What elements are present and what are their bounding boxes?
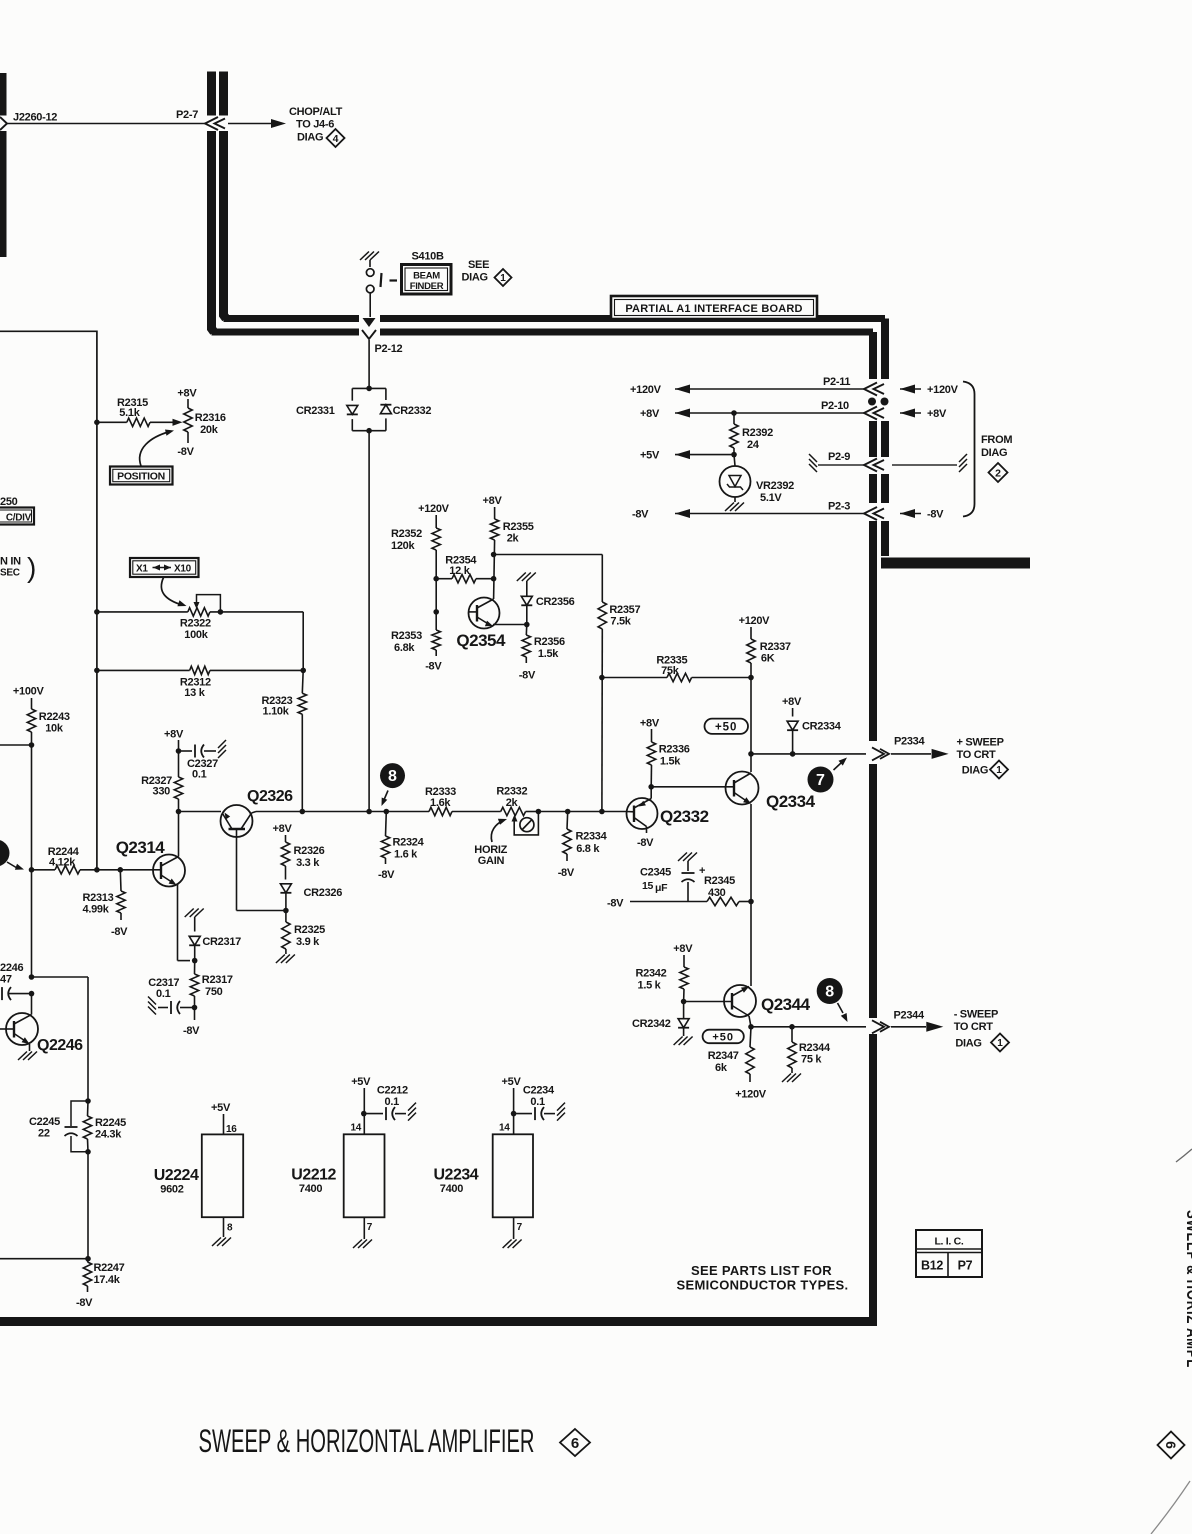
node collector rail / feed wire [29,974,35,980]
svg-text:CR2317: CR2317 [202,936,241,948]
node R2317 / C2317 [192,1005,198,1011]
wire R2243 to Q2246 collector rail [31,732,33,977]
wire R2322 to corner [210,611,303,613]
node R2247 top [85,1256,91,1262]
svg-text:C2345: C2345 [640,867,671,879]
svg-text:R2313: R2313 [83,892,114,904]
svg-text:R2342: R2342 [636,968,667,980]
svg-text:U2224: U2224 [154,1167,199,1184]
svg-text:TO CRT: TO CRT [957,749,997,761]
node R2355 bottom / R2357 feed [494,540,495,599]
resistor R2327 [178,751,180,777]
diamond 6 title [560,1429,590,1456]
svg-text:8: 8 [227,1223,233,1234]
node sweep block output [94,867,100,873]
svg-text:10k: 10k [45,723,64,735]
svg-text:-8V: -8V [425,661,442,673]
svg-text:SWEEP & HORIZONTAL AMPLIFIER: SWEEP & HORIZONTAL AMPLIFIER [199,1423,535,1459]
wire Q2246 collector up [31,994,33,1015]
wire R2323 down to Q2326 collector node [301,714,303,811]
wire bottom rail from left edge [0,1258,88,1260]
ground below CR2342 [683,1028,685,1036]
svg-text:R2355: R2355 [503,521,534,533]
wire R2352 to nodes [435,550,437,630]
resistor R2336 [647,742,655,765]
svg-text:+100V: +100V [13,686,45,698]
svg-text:C2212: C2212 [377,1085,408,1097]
node R2315 tap on sweep block [94,420,100,426]
node top of CR2331/CR2332 [366,386,372,392]
svg-text:X10: X10 [174,564,192,575]
svg-text:μF: μF [655,882,668,894]
capacitor C2212 [364,1113,383,1115]
capacitor C2234 [514,1113,532,1115]
switch arm [381,273,382,287]
wire +5V row [675,450,690,459]
svg-text:+5V: +5V [211,1102,231,1114]
transistor Q2332 [627,798,658,829]
svg-text:12 k: 12 k [449,565,470,577]
svg-text:R2326: R2326 [294,845,325,857]
resistor R2247 [87,1259,90,1262]
svg-text:1: 1 [500,273,506,284]
svg-text:330: 330 [153,786,171,798]
resistor R2334 [566,812,569,830]
svg-text:75k: 75k [661,665,680,677]
diode CR2356 [526,581,528,596]
svg-text:+120V: +120V [630,384,662,396]
svg-text:BEAM: BEAM [413,271,440,282]
wire +120V row P2-11 [675,385,690,394]
node R2344 tap [789,1024,795,1030]
box POSITION [110,467,173,485]
node Q2332 collector / Q2334 base [648,784,654,790]
svg-text:4.99k: 4.99k [83,904,110,916]
capacitor C2245 branch [71,1101,88,1126]
resistor R2326 [281,842,289,866]
arrow +120V from diag right side [900,385,915,394]
arrow -sweep off board [891,1026,926,1028]
node R2354 left [433,576,439,582]
resistor R2312 [190,666,210,674]
svg-text:6: 6 [1163,1441,1179,1449]
node CR2331 rail joins [366,809,372,815]
svg-text:Q2344: Q2344 [761,995,811,1014]
box BEAM FINDER [402,265,452,295]
wire -sweep output to connector [751,1026,866,1028]
node C2245/R2245 bottom [85,1149,91,1155]
resistor R2392 [733,413,735,424]
wire Q2354 emitter to CR2356 node [493,624,527,626]
arrow ball 8 to output wire [838,1003,844,1013]
node C2234 tap [511,1111,517,1117]
svg-text:1: 1 [997,1038,1003,1049]
box X1-X10 [130,558,199,577]
svg-text:+5V: +5V [351,1076,371,1088]
svg-text:): ) [27,552,36,583]
board bar below P2-7 outer [224,131,227,319]
svg-text:+8V: +8V [673,943,693,955]
resistor R2345 [707,897,739,905]
arrow HORIZ GAIN to adjust [491,821,503,843]
svg-text:1: 1 [996,765,1002,776]
svg-text:+8V: +8V [927,408,947,420]
page curl mark [1176,1149,1192,1162]
svg-text:-8V: -8V [378,869,395,881]
svg-text:-8V: -8V [632,509,649,521]
diamond 1 beam finder [495,269,512,286]
svg-text:R2245: R2245 [95,1117,126,1129]
connector pin dots between P2-11 and P2-10 [868,398,876,406]
svg-text:CR2331: CR2331 [296,405,335,417]
svg-text:DIAG: DIAG [962,765,988,777]
wire switch to P2-12 [369,293,371,317]
diamond 4 [327,129,345,147]
resistor R2356 [525,625,528,636]
svg-text:R2322: R2322 [180,618,211,630]
board bar top horizontal right of P2-12 [380,315,885,322]
wire R2315 to wiper arrow of R2316 [150,421,174,423]
svg-text:6: 6 [571,1435,579,1452]
node R2323 on rail [300,809,306,815]
connector P2-12 chevrons [363,318,376,327]
svg-text:VR2392: VR2392 [756,480,794,492]
svg-text:14: 14 [499,1123,510,1134]
node R2312 wire on sweep block [94,668,100,674]
svg-text:R2325: R2325 [294,924,325,936]
svg-text:X1: X1 [136,564,148,575]
node Q2354 base [433,609,439,615]
wire R2332 to junction [526,811,539,813]
svg-text:DIAG: DIAG [297,132,323,144]
svg-text:SEMICONDUCTOR TYPES.: SEMICONDUCTOR TYPES. [677,1278,849,1293]
svg-text:R2336: R2336 [659,744,690,756]
resistor R2347 [750,1027,751,1047]
arrow ball 8 to rail [384,791,389,802]
connector chevrons P2-10 [864,407,877,420]
diamond 2 [989,463,1008,482]
svg-text:+5V: +5V [502,1076,522,1088]
wire R2337 node down to Q2334 collector [750,678,752,773]
numbered ball 7 [808,767,834,793]
svg-text:CR2326: CR2326 [304,887,343,899]
node R2334 tap [565,809,571,815]
node VR2392 top [731,452,737,458]
resistor R2245 [87,1101,90,1116]
svg-text:+120V: +120V [739,615,771,627]
capacitor C2345 polarised [687,861,689,871]
node emitter junction R2345 [748,899,754,905]
board bar long vertical left/inner [869,559,877,741]
svg-text:TO CRT: TO CRT [954,1021,994,1033]
svg-text:5.1V: 5.1V [760,492,782,504]
svg-text:P2-12: P2-12 [375,343,403,355]
svg-text:P7: P7 [958,1259,973,1273]
arrow ball 7 to output wire [834,763,842,770]
svg-text:47: 47 [0,974,12,986]
wire R2244 to Q2314 base [80,869,154,871]
resistor R2353 [432,630,440,650]
svg-text:430: 430 [708,887,726,899]
ground above CR2317 [185,909,194,918]
ground below Q2246 emitter [29,1044,31,1051]
wire R2335 row [602,677,667,679]
svg-text:-8V: -8V [519,670,536,682]
svg-text:R2316: R2316 [195,412,226,424]
board bar P2-7 left column [207,72,216,116]
svg-text:P2-3: P2-3 [828,501,850,513]
ground U2212 [353,1240,362,1249]
numbered ball 8 (node 8) [380,763,405,788]
svg-text:4: 4 [333,133,339,145]
node R2392 top [731,410,737,416]
svg-text:750: 750 [205,986,223,998]
svg-text:R2356: R2356 [534,636,565,648]
ground above CR2356 [517,573,526,582]
table L.I.C. B12 P7 [916,1230,982,1277]
svg-text:P2-9: P2-9 [828,451,850,463]
resistor R2324 [385,812,388,837]
svg-text:15: 15 [642,880,654,892]
svg-text:R2317: R2317 [202,974,233,986]
ground above beam finder switch [369,260,371,267]
svg-text:0.1: 0.1 [530,1096,545,1108]
resistor R2243 [27,709,35,732]
board bar segments between connector rows [869,421,877,457]
svg-text:DIAG: DIAG [462,272,488,284]
resistor R2352 [432,528,440,550]
svg-text:R2345: R2345 [704,875,735,887]
connector chevrons P2-9 [864,459,877,472]
svg-text:R2392: R2392 [742,427,773,439]
svg-text:24: 24 [747,439,760,451]
svg-text:R2337: R2337 [760,641,791,653]
wire R2345 to emitter rail [739,901,751,903]
wire main rail Q2326 to R2333 [302,811,429,813]
svg-text:P2-7: P2-7 [176,109,198,121]
box uSEC/DIV (cut at left edge) [0,508,34,525]
ground above C2345 [678,853,687,862]
svg-text:-8V: -8V [76,1297,93,1309]
arrow to CHOP/ALT [228,123,272,125]
node R2332 right [536,809,542,815]
svg-text:DIAG: DIAG [955,1038,981,1050]
svg-text:250: 250 [0,496,18,508]
node CR2356 / R2356 [524,622,530,628]
connector chevron J2260-12 at left edge [0,117,7,130]
resistor R2342 [680,967,688,989]
svg-text:CR2332: CR2332 [393,405,432,417]
svg-text:1.10k: 1.10k [263,706,290,718]
svg-text:SEC: SEC [0,568,20,579]
svg-text:POSITION: POSITION [117,471,165,483]
svg-text:-8V: -8V [183,1025,200,1037]
svg-text:P2-11: P2-11 [823,376,850,388]
svg-text:0.1: 0.1 [156,988,171,1000]
svg-text:Q2332: Q2332 [660,807,709,826]
wire R2312 row [97,669,190,671]
node bottom of diode pair [366,428,372,434]
wire Q2332 collector up [650,787,652,799]
oval +50 upper [705,719,749,734]
svg-text:R2324: R2324 [393,837,425,849]
svg-text:FROM: FROM [981,434,1012,446]
svg-text:14: 14 [351,1123,362,1134]
diode CR2317 [194,917,196,932]
svg-text:+8V: +8V [640,408,660,420]
resistor R2244 [32,869,56,871]
node R2244 left [29,867,35,873]
svg-text:0.1: 0.1 [192,769,207,781]
resistor R2323 [301,670,304,693]
label box PARTIAL A1 INTERFACE BOARD [611,296,817,319]
node R2322 wire on sweep block [94,609,100,615]
wire Q2332 emitter to -8V [646,827,648,834]
diamond 1 +sweep [990,761,1008,779]
transistor Q2246 [6,1013,38,1045]
svg-text:8: 8 [825,984,834,1001]
transistor Q2314 [153,855,185,887]
resistor R2315 [127,418,150,426]
transistor Q2344 [724,985,756,1017]
node CR2334 on output wire [790,751,796,757]
svg-text:-8V: -8V [111,926,128,938]
wire to R2322 [97,611,188,613]
connector chevrons P2344 [872,1020,884,1033]
svg-text:7.5k: 7.5k [610,616,631,628]
node Q2326 emitter rail [176,809,182,815]
diode CR2334 [787,721,798,730]
svg-text:7400: 7400 [440,1183,463,1195]
resistor R2355 [490,519,498,540]
svg-text:7: 7 [517,1222,523,1233]
wire Q2326 collector to R2323 node [252,812,257,814]
svg-text:Q2314: Q2314 [116,838,166,857]
svg-text:C/DIV: C/DIV [6,513,32,524]
svg-text:+8V: +8V [640,718,660,730]
wire -8V row P2-3 [675,509,690,518]
svg-text:+8V: +8V [177,388,197,400]
svg-text:SEE PARTS LIST FOR: SEE PARTS LIST FOR [691,1263,832,1278]
svg-text:2: 2 [995,467,1001,479]
svg-text:GAIN: GAIN [478,855,505,867]
capacitor C2327 [179,750,193,752]
wire node to Q2326 [179,811,222,813]
svg-text:SWEEP & HORIZ AMPL: SWEEP & HORIZ AMPL [1183,1210,1192,1368]
potentiometer R2332 HORIZ GAIN [501,807,526,815]
svg-text:0.1: 0.1 [385,1096,400,1108]
svg-text:13 k: 13 k [184,687,205,699]
svg-text:+50: +50 [715,722,738,734]
diamond 6 side rotated [1158,1432,1185,1459]
svg-text:-8V: -8V [927,509,944,521]
oval +50 lower [703,1030,744,1044]
svg-text:U2234: U2234 [434,1167,479,1184]
wire Q2314 collector up to node 8 rail [178,812,180,857]
wire base node to Q2344 [684,1001,732,1003]
svg-text:+120V: +120V [735,1089,767,1101]
resistor R2325 [285,911,287,923]
svg-text:PARTIAL A1 INTERFACE BOARD: PARTIAL A1 INTERFACE BOARD [625,303,802,315]
numbered ball 8 lower [817,978,843,1004]
svg-text:N IN: N IN [0,556,21,568]
diamond 1 -sweep [991,1034,1009,1052]
svg-text:+120V: +120V [927,384,959,396]
wire R2332 to R2334 node [538,811,602,813]
svg-text:B12: B12 [921,1259,943,1273]
board edge thick bar, far left top [0,73,7,116]
numbered ball at left edge [0,840,10,867]
wire +sweep output to connector [751,753,866,755]
page curl mark bottom corner [1151,1481,1190,1534]
svg-text:2k: 2k [506,797,519,809]
transistor Q2354 [469,598,500,629]
wire R2355 node to R2357 top [494,554,603,556]
svg-text:1.6 k: 1.6 k [394,849,418,861]
wire R2312 to R2323 node [210,669,303,671]
svg-text:CR2334: CR2334 [802,721,842,733]
capacitor C2246 from left edge [1,987,3,1000]
node CR2317 / R2317 [192,958,198,964]
svg-text:Q2246: Q2246 [37,1037,83,1054]
diode CR2331 [347,405,358,414]
wire Q2326 base down [236,829,238,911]
resistor R2333 [429,807,452,815]
board bar below P2-7 inner [212,131,215,332]
svg-text:7: 7 [816,772,825,789]
svg-text:+50: +50 [712,1031,734,1043]
svg-text:Q2334: Q2334 [766,792,816,811]
svg-text:1.5 k: 1.5 k [638,980,662,992]
connector chevrons P2-3 [864,507,877,520]
wire J2260-12 to P2-7 [7,123,205,125]
svg-text:P2344: P2344 [894,1010,925,1022]
svg-text:CR2356: CR2356 [536,596,575,608]
arrow -8V from diag right side [900,509,915,518]
wire to R2315 [97,421,127,423]
svg-text:-8V: -8V [607,898,624,910]
svg-text:-8V: -8V [177,446,194,458]
ground below R2325 [276,955,285,964]
svg-text:R2332: R2332 [496,786,527,798]
svg-text:U2212: U2212 [291,1167,336,1184]
svg-text:6.8 k: 6.8 k [576,843,600,855]
diode CR2326 [285,866,287,880]
svg-text:20k: 20k [200,424,219,436]
connector chevrons P2334 [872,747,884,760]
svg-text:+5V: +5V [640,450,660,462]
svg-text:1.5k: 1.5k [660,756,681,768]
node C2327 [176,748,182,754]
ground U2234 [503,1240,512,1249]
svg-text:6K: 6K [761,653,775,665]
svg-text:4.12k: 4.12k [49,857,76,869]
svg-text:SEE: SEE [468,259,489,271]
svg-text:R2243: R2243 [39,711,70,723]
svg-text:+ SWEEP: + SWEEP [957,737,1004,749]
svg-text:+8V: +8V [782,696,802,708]
wire down to bottom rail [87,1152,89,1259]
svg-text:DIAG: DIAG [981,447,1007,459]
svg-text:R2347: R2347 [708,1050,739,1062]
node +sweep output tap [748,751,754,757]
svg-text:16: 16 [226,1124,237,1135]
wire diode pair down to horiz amp input node [368,431,370,812]
ground below R2344 [782,1074,791,1083]
node R2354 right [491,576,497,582]
bracket FROM DIAG 2 [963,382,975,517]
connector chevrons P2-11 [864,383,877,396]
